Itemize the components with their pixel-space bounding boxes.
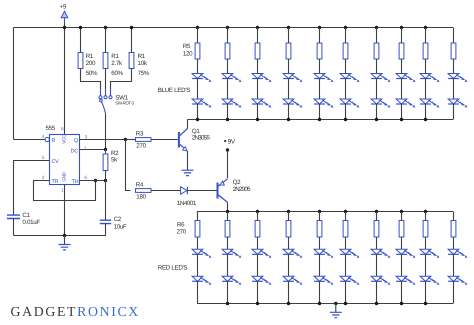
wire: LED link column 6 [345, 79, 347, 100]
resistor R5 column 4 [286, 43, 291, 59]
wire: LED link column 5 [319, 79, 321, 100]
wire: red LED link column 1 [197, 254, 199, 276]
wire: LED to bottom rail column 3 [257, 104, 259, 120]
svg-text:6: 6 [84, 175, 87, 180]
resistor R6 column 4 [286, 221, 291, 238]
junction red column 5 bottom [318, 302, 321, 305]
svg-text:R: R [52, 138, 56, 144]
junction red column 9 bottom [424, 302, 427, 305]
svg-text:3: 3 [85, 134, 88, 139]
svg-text:DC: DC [71, 148, 79, 154]
wire: LED to bottom rail column 1 [197, 104, 199, 120]
wire: R6 to LED column 3 [257, 237, 259, 249]
junction ground bus [63, 234, 66, 237]
svg-text:R1: R1 [111, 53, 119, 60]
LED red 2B [222, 276, 233, 281]
svg-text:BLUE LED'S: BLUE LED'S [158, 87, 190, 94]
wire: red LED link column 4 [288, 254, 290, 276]
junction blue column 2 bottom [226, 118, 229, 121]
wire: R6 to LED column 9 [425, 237, 427, 249]
wire: diode to Q2 base [187, 190, 216, 192]
wire: blue column 10 top [453, 28, 455, 44]
555 reset bubble pin 4 [45, 137, 49, 141]
transistor Q1 2N3055 [178, 132, 180, 148]
LED red 1A [192, 249, 203, 254]
wire: DC pin 7 [80, 149, 106, 151]
resistor R6 column 1 [195, 221, 200, 238]
wire: red LED link column 5 [319, 254, 321, 276]
svg-text:TR: TR [52, 179, 59, 185]
wire: R5 to LED column 6 [345, 59, 347, 74]
wire: ground bus under 555 [14, 224, 106, 236]
wire: red column 10 top [453, 212, 455, 221]
wire: R6 to LED column 2 [227, 237, 229, 249]
svg-text:+9: +9 [60, 4, 67, 11]
wire: red LED link column 3 [257, 254, 259, 276]
junction red column 3 bottom [256, 302, 259, 305]
resistor R3 270 [126, 139, 136, 141]
wire: red LED to bottom rail column 5 [319, 281, 321, 303]
junction red column 6 bottom [344, 302, 347, 305]
transistor Q2 2N2905 [217, 183, 219, 199]
wire: blue column 1 top [196, 26, 199, 29]
LED red 8A [396, 249, 407, 254]
junction TR loop on TH wire [94, 179, 97, 182]
LED red 3A [252, 249, 263, 254]
wire: R6 to LED column 10 [453, 237, 455, 249]
resistor R1 (200) [78, 53, 83, 69]
wire: red column 4 top [287, 210, 290, 213]
wire: red LED array bottom rail [197, 303, 453, 305]
wire: red column 8 top [400, 210, 403, 213]
resistor R5 column 5 [317, 43, 322, 59]
junction blue column 1 bottom [196, 118, 199, 121]
wire: R1(10k) to switch contact 3 [111, 69, 132, 90]
wire: +9 flag to rail and down to 555 VCC [64, 23, 66, 135]
wire: blue column 7 top [375, 26, 378, 29]
wire: LED link column 2 [227, 79, 229, 100]
wire: LED to bottom rail column 10 [453, 104, 455, 120]
wire: red LED to bottom rail column 10 [453, 281, 455, 303]
resistor R5 column 6 [343, 43, 348, 59]
svg-text:RED LED'S: RED LED'S [158, 265, 188, 272]
junction blue column 6 bottom [344, 118, 347, 121]
wire: red LED to bottom rail column 7 [376, 281, 378, 303]
LED red 5A [314, 249, 325, 254]
svg-text:R1: R1 [138, 53, 146, 60]
wire: red column 2 top [226, 210, 229, 213]
ground symbol under 555 [64, 236, 66, 245]
wire: R6 to LED column 5 [319, 237, 321, 249]
LED red 10A [448, 249, 459, 254]
svg-text:R1: R1 [86, 53, 94, 60]
junction red column 4 bottom [287, 302, 290, 305]
svg-text:555: 555 [46, 125, 56, 132]
LED blue 4B [283, 99, 294, 104]
wire: output node down to R4 [126, 140, 131, 191]
wire: R1(200) to switch contact 1 [81, 69, 101, 90]
resistor R6 column 10 [451, 221, 456, 238]
wire: LED to bottom rail column 5 [319, 104, 321, 120]
svg-text:GND: GND [61, 171, 66, 181]
wire: LED link column 3 [257, 79, 259, 100]
wire: red column 7 top [375, 210, 378, 213]
svg-text:9V: 9V [228, 138, 236, 145]
wire: red column 3 top [256, 210, 259, 213]
wire: TR pin 2 loop to TH [34, 181, 96, 201]
LED red 3B [252, 276, 263, 281]
svg-text:5k: 5k [111, 157, 118, 164]
LED blue 1B [192, 99, 203, 104]
junction blue column 9 bottom [424, 118, 427, 121]
LED blue 8A [396, 74, 407, 79]
resistor R5 column 10 [451, 43, 456, 59]
wire: blue LED array bottom rail [188, 119, 454, 121]
resistor R6 column 2 [225, 221, 230, 238]
wire: red LED link column 2 [227, 254, 229, 276]
svg-text:270: 270 [136, 143, 146, 150]
svg-text:CV: CV [52, 159, 60, 165]
LED red 9B [420, 276, 431, 281]
wire: 555 GND pin 1 down [64, 185, 66, 236]
wire: R5 to LED column 2 [227, 59, 229, 74]
junction R1.3 on rail [130, 26, 133, 29]
wire: LED link column 9 [425, 79, 427, 100]
resistor R5 column 2 [225, 43, 230, 59]
resistor R6 column 6 [343, 221, 348, 238]
LED red 8B [396, 276, 407, 281]
wire: switch pole to 555 DC pin node [105, 113, 107, 150]
LED blue 1A [192, 74, 203, 79]
capacitor C2 10uF [100, 220, 111, 223]
wire: Q output pin 3 [80, 139, 126, 141]
ground symbol at Q1 emitter [182, 170, 194, 175]
wire: red LED to bottom rail column 4 [288, 281, 290, 303]
wire: CV pin 5 to C1 [14, 161, 50, 215]
svg-text:TH: TH [72, 179, 79, 185]
wire: red LED link column 7 [376, 254, 378, 276]
resistor R5 column 9 [423, 43, 428, 59]
wire: red column 1 top [197, 212, 199, 221]
wire: LED to bottom rail column 2 [227, 104, 229, 120]
svg-text:C2: C2 [114, 216, 122, 223]
LED blue 10B [448, 99, 459, 104]
LED blue 4A [283, 74, 294, 79]
svg-text:50%: 50% [86, 70, 98, 77]
LED red 7B [371, 276, 382, 281]
wire: Q1 collector to blue LED rail [187, 120, 189, 129]
wire: LED to bottom rail column 8 [401, 104, 403, 120]
diode D1 1N4001 [181, 187, 187, 194]
svg-text:R3: R3 [136, 131, 144, 138]
wire: red LED to bottom rail column 3 [257, 281, 259, 303]
wire: red LED to bottom rail column 1 [197, 281, 199, 303]
wire: red column 5 top [318, 210, 321, 213]
wire: red column 6 top [344, 210, 347, 213]
wire: blue column 5 top [318, 26, 321, 29]
wire: 9V stub to Q2 emitter [226, 148, 229, 151]
wire: R6 to LED column 8 [401, 237, 403, 249]
svg-text:R6: R6 [177, 222, 185, 229]
wire: red LED to bottom rail column 6 [345, 281, 347, 303]
wire: red LED array top rail [197, 211, 453, 213]
junction blue column 3 bottom [256, 118, 259, 121]
resistor R5 column 7 [374, 43, 379, 59]
wire: R5 to LED column 5 [319, 59, 321, 74]
wire: R6 to LED column 1 [197, 237, 199, 249]
wire: Q1 emitter to ground [187, 151, 189, 170]
junction red column 7 bottom [375, 302, 378, 305]
LED red 5B [314, 276, 325, 281]
svg-text:2.7k: 2.7k [111, 60, 123, 67]
LED blue 2A [222, 74, 233, 79]
junction at +9 on rail [63, 26, 66, 29]
wire: R1(2.7k) to switch contact 2 [105, 69, 107, 90]
wire: R6 to LED column 7 [376, 237, 378, 249]
LED blue 9A [420, 74, 431, 79]
wire: rail to resistor R1.1 [80, 28, 82, 53]
wire: R5 to LED column 3 [257, 59, 259, 74]
junction R1.1 on rail [79, 26, 82, 29]
resistor R2 5k [105, 150, 107, 155]
svg-text:5: 5 [42, 155, 45, 160]
wire: reset pin 4 to left rail [14, 139, 46, 141]
wire: LED link column 4 [288, 79, 290, 100]
junction blue column 5 bottom [318, 118, 321, 121]
switch SW1 (SW-ROT-3) [100, 89, 102, 96]
resistor R5 column 8 [399, 43, 404, 59]
wire: blue column 9 top [424, 26, 427, 29]
resistor R6 column 3 [255, 221, 260, 238]
LED blue 7B [371, 99, 382, 104]
LED red 7A [371, 249, 382, 254]
svg-text:VCC: VCC [61, 134, 66, 144]
svg-text:60%: 60% [111, 70, 123, 77]
junction red column 2 bottom [226, 302, 229, 305]
wire: R5 to LED column 7 [376, 59, 378, 74]
wire: LED link column 8 [401, 79, 403, 100]
wire: R5 to LED column 8 [401, 59, 403, 74]
svg-text:Q: Q [74, 138, 78, 144]
wire: Q2 collector to red LED rail [227, 202, 229, 211]
junction DC node [104, 148, 107, 151]
resistor R1 (10k) [129, 53, 134, 69]
junction ground on red rail [334, 302, 337, 305]
svg-text:1: 1 [61, 188, 64, 193]
svg-text:2N3055: 2N3055 [192, 135, 210, 142]
junction output node [124, 138, 127, 141]
wire: red LED to bottom rail column 9 [425, 281, 427, 303]
svg-text:R4: R4 [136, 181, 144, 188]
LED blue 9B [420, 99, 431, 104]
wire: rail to resistor R1.2 [105, 28, 107, 53]
resistor R6 column 5 [317, 221, 322, 238]
svg-text:4: 4 [42, 134, 45, 139]
resistor R6 column 8 [399, 221, 404, 238]
wire: TH pin 6 [80, 180, 106, 182]
junction blue column 4 bottom [287, 118, 290, 121]
wire: R5 to LED column 10 [453, 59, 455, 74]
LED blue 3A [252, 74, 263, 79]
wire: left rail down to 555 reset pin [13, 28, 15, 140]
LED blue 6A [340, 74, 351, 79]
svg-text:75%: 75% [138, 70, 150, 77]
wire: blue column 3 top [256, 26, 259, 29]
junction TH node [104, 179, 107, 182]
svg-text:120: 120 [183, 51, 193, 58]
LED red 4B [283, 276, 294, 281]
wire: rail to resistor R1.3 [131, 28, 133, 53]
LED red 9A [420, 249, 431, 254]
wire: red LED link column 6 [345, 254, 347, 276]
wire: red LED link column 10 [453, 254, 455, 276]
wire: red LED to bottom rail column 2 [227, 281, 229, 303]
svg-text:200: 200 [86, 60, 96, 67]
resistor R6 column 7 [374, 221, 379, 238]
LED red 2A [222, 249, 233, 254]
wire: LED to bottom rail column 4 [288, 104, 290, 120]
junction R1.2 on rail [104, 26, 107, 29]
wire: red LED link column 8 [401, 254, 403, 276]
LED blue 6B [340, 99, 351, 104]
wire: LED to bottom rail column 7 [376, 104, 378, 120]
svg-text:SW-ROT-3: SW-ROT-3 [115, 101, 134, 106]
svg-text:10k: 10k [138, 60, 148, 67]
wire: blue column 8 top [400, 26, 403, 29]
LED red 10B [448, 276, 459, 281]
resistor R5 column 3 [255, 43, 260, 59]
LED red 1B [192, 276, 203, 281]
resistor R4 180 [136, 189, 152, 193]
wire: +9 supply top rail [14, 27, 454, 29]
LED blue 5B [314, 99, 325, 104]
LED blue 2B [222, 99, 233, 104]
junction blue column 8 bottom [400, 118, 403, 121]
LED blue 3B [252, 99, 263, 104]
LED red 4A [283, 249, 294, 254]
LED blue 8B [396, 99, 407, 104]
wire: C1 to ground bus [13, 219, 15, 236]
LED blue 7A [371, 74, 382, 79]
wire: red LED link column 9 [425, 254, 427, 276]
wire: LED link column 7 [376, 79, 378, 100]
svg-text:GADGETRONICX: GADGETRONICX [11, 304, 140, 319]
wire: R6 to LED column 4 [288, 237, 290, 249]
svg-text:8: 8 [61, 126, 64, 131]
resistor R5 column 1 [195, 43, 200, 59]
LED blue 5A [314, 74, 325, 79]
op-amp/timer U1 555 body [50, 135, 80, 185]
wire: LED link column 1 [197, 79, 199, 100]
svg-text:0.01uF: 0.01uF [22, 219, 40, 226]
wire: red LED to bottom rail column 8 [401, 281, 403, 303]
wire: blue column 6 top [344, 26, 347, 29]
resistor R1 (2.7k) [103, 53, 108, 69]
net label 9V [224, 140, 226, 142]
svg-text:C1: C1 [22, 212, 30, 219]
svg-text:2N2905: 2N2905 [233, 186, 251, 193]
wire: LED link column 10 [453, 79, 455, 100]
junction red column 8 bottom [400, 302, 403, 305]
svg-text:1N4001: 1N4001 [177, 200, 197, 207]
resistor R6 column 9 [423, 221, 428, 238]
wire: R5 to LED column 1 [197, 59, 199, 74]
LED red 6B [340, 276, 351, 281]
wire: red column 9 top [424, 210, 427, 213]
svg-text:180: 180 [136, 193, 146, 200]
wire: R5 to LED column 9 [425, 59, 427, 74]
power flag +9 [61, 11, 68, 18]
LED blue 10A [448, 74, 459, 79]
svg-text:10uF: 10uF [114, 224, 127, 231]
capacitor C1 0.01uF [7, 215, 20, 218]
LED red 6A [340, 249, 351, 254]
wire: R5 to LED column 4 [288, 59, 290, 74]
wire: blue column 4 top [287, 26, 290, 29]
wire: LED to bottom rail column 9 [425, 104, 427, 120]
wire: R6 to LED column 6 [345, 237, 347, 249]
wire: blue column 2 top [226, 26, 229, 29]
junction blue column 7 bottom [375, 118, 378, 121]
svg-text:270: 270 [177, 229, 187, 236]
ground symbol red array [335, 304, 337, 313]
svg-text:2: 2 [42, 175, 45, 180]
wire: LED to bottom rail column 6 [345, 104, 347, 120]
wire: TH node down to C2 [105, 181, 107, 220]
svg-text:R5: R5 [183, 43, 191, 50]
